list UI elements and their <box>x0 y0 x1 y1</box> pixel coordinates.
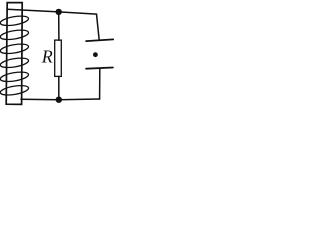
inductor L1 turn 5 <box>0 70 29 83</box>
inductor L1 turn 3 <box>0 42 29 55</box>
wire bottom-right vertical <box>99 68 101 99</box>
capacitor C1 bottom plate <box>86 68 113 69</box>
node junction dot top <box>56 9 62 15</box>
inductor L1 core <box>6 3 22 105</box>
inductor L1 turn 6 <box>0 84 29 97</box>
wire top-right vertical <box>97 14 100 40</box>
wire resistor bottom lead <box>58 76 60 99</box>
inductor L1 turn 2 <box>0 28 29 41</box>
capacitor C1 centre dot <box>93 52 98 57</box>
capacitor C1 top plate <box>86 39 113 41</box>
svg-text:R: R <box>41 47 53 67</box>
wire bottom horizontal <box>21 98 100 101</box>
inductor L1 turn 4 <box>0 56 29 69</box>
resistor R box <box>55 40 62 76</box>
inductor L1 turn 1 <box>0 14 29 27</box>
wire resistor top lead <box>58 12 60 40</box>
node junction dot bottom <box>56 97 62 103</box>
wire top horizontal <box>7 9 97 14</box>
